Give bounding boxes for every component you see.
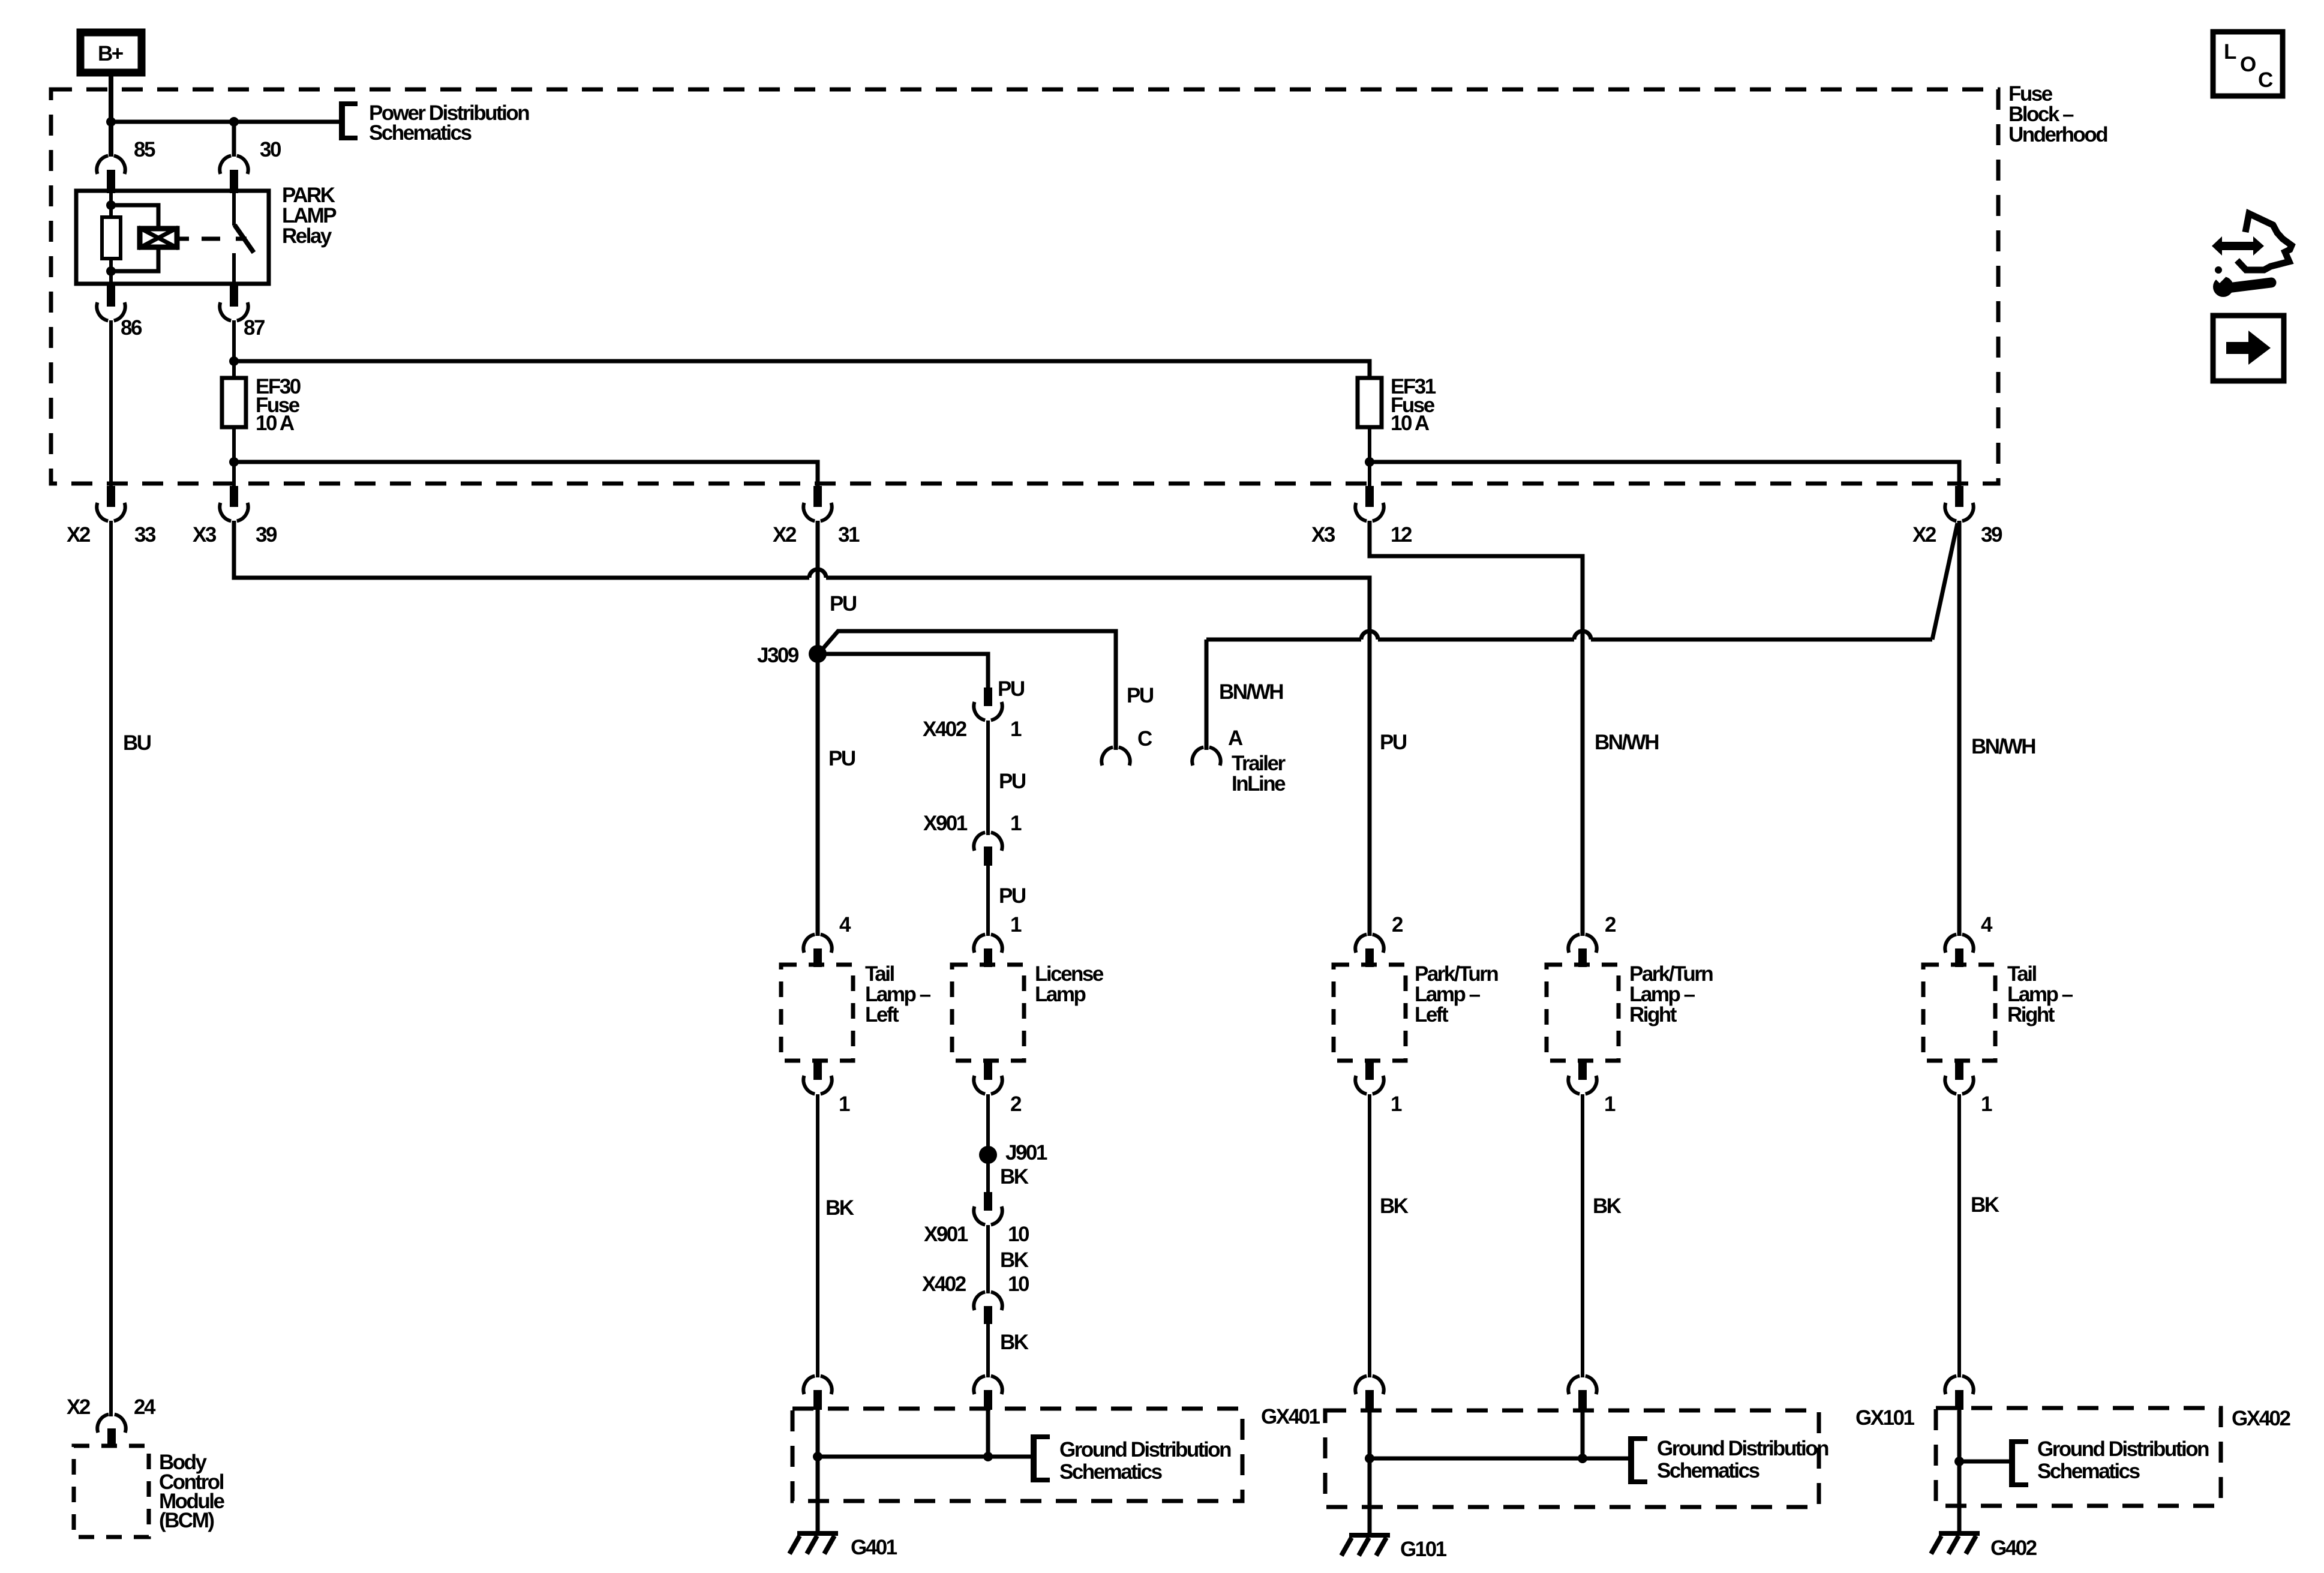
label body control module (159, 1451, 225, 1532)
connector license lamp pin 2 bottom (974, 1059, 1022, 1116)
connector into GX401 left (803, 1376, 831, 1410)
svg-text:1: 1 (1010, 812, 1022, 835)
svg-text:L: L (2224, 40, 2236, 64)
label park/turn lamp right (1629, 962, 1713, 1026)
svg-text:BK: BK (1380, 1194, 1409, 1218)
node relay coil bottom junction (106, 266, 116, 276)
wire GX101 right branch (1581, 1410, 1585, 1458)
wire B+ drop to relay pin 85 (109, 73, 113, 157)
wire GX401 to ground G401 (816, 1457, 820, 1533)
svg-text:39: 39 (256, 523, 277, 547)
node relay coil top junction (106, 200, 116, 210)
svg-text:BK: BK (1593, 1194, 1622, 1218)
wire EF31 bottom to X3-12 (1368, 427, 1371, 487)
body control module dashed box (74, 1446, 149, 1537)
label tail lamp left (865, 962, 931, 1026)
connector X402 pin 1 inline (923, 688, 1022, 741)
svg-text:PU: PU (830, 592, 857, 616)
svg-text:Schematics: Schematics (2037, 1460, 2140, 1483)
svg-text:2: 2 (1392, 913, 1403, 936)
connector park/turn right pin 2 (1568, 913, 1616, 967)
connector license lamp pin 1 (974, 913, 1022, 967)
svg-text:Left: Left (865, 1003, 899, 1026)
fuse block underhood dashed box (51, 89, 1998, 484)
wire tail lamp left pin 1 to GX401 (816, 1094, 819, 1377)
connector X402 pin 10 inline (922, 1272, 1029, 1324)
svg-text:Schematics: Schematics (1657, 1459, 1760, 1482)
connector tail lamp left pin 4 (803, 913, 851, 967)
svg-text:2: 2 (1605, 913, 1616, 936)
wire bus drop to relay pin 30 (232, 122, 236, 157)
connector relay pin 86 (97, 282, 142, 340)
wire EF31 output to X2-39 (1370, 462, 1959, 487)
node J309 splice (809, 645, 827, 663)
connector park/turn left pin 2 (1355, 913, 1403, 967)
wire GX101 internal bus to bracket (1370, 1410, 1629, 1458)
connector into GX401 right (974, 1376, 1002, 1410)
connector X2 pin 24 into BCM (67, 1395, 156, 1448)
svg-text:X2: X2 (67, 523, 91, 547)
svg-text:BK: BK (1000, 1331, 1029, 1354)
relay coil element (139, 227, 189, 248)
svg-text:86: 86 (121, 316, 142, 340)
wire hop over X2-31 column (809, 569, 826, 578)
ground connection GX401 dashed box (792, 1409, 1242, 1501)
svg-text:C: C (1137, 727, 1152, 751)
connector into GX101 left (1355, 1376, 1383, 1410)
svg-text:GX402: GX402 (2232, 1407, 2290, 1430)
label license lamp (1035, 962, 1104, 1006)
wire EF30 bottom to X3-39 (232, 427, 236, 487)
wire GX401 license branch (986, 1410, 990, 1457)
svg-text:31: 31 (838, 523, 860, 547)
connector park/turn left pin 1 bottom (1355, 1059, 1402, 1116)
node bus junction at pin 30 column (229, 117, 239, 127)
connector into GX101 right (1568, 1376, 1596, 1410)
svg-text:G402: G402 (1990, 1536, 2037, 1560)
wire X901-1 to license lamp pin 1 (986, 865, 990, 936)
relay coil branch wiring (111, 191, 158, 284)
svg-text:PU: PU (999, 770, 1026, 793)
wire X3-12 jog to park/turn lamp right feed (1370, 521, 1583, 936)
label fuse block underhood (2008, 82, 2107, 146)
connector X3 pin 12 (1311, 486, 1412, 547)
svg-text:GX401: GX401 (1261, 1405, 1320, 1428)
wire X402-10 to GX401 (986, 1323, 990, 1377)
ground connection GX101 dashed box (1325, 1410, 1819, 1507)
svg-text:1: 1 (1391, 1092, 1402, 1116)
wire diagonal from X2-39 to trailer feed (1932, 523, 1957, 640)
ground distribution schematics bracket GX402 (2011, 1437, 2209, 1487)
svg-text:C: C (2258, 68, 2273, 92)
svg-text:Schematics: Schematics (369, 121, 472, 145)
svg-text:BK: BK (825, 1196, 854, 1220)
node junction below pin 87 (229, 356, 239, 366)
svg-text:X2: X2 (67, 1395, 91, 1419)
wire relay pin 87 down to EF30 fuse (232, 320, 236, 378)
node GX101 junction right (1578, 1454, 1587, 1463)
tail lamp right dashed box (1923, 965, 1995, 1061)
svg-text:X402: X402 (923, 718, 967, 741)
svg-text:Ground Distribution: Ground Distribution (2037, 1437, 2209, 1461)
wire X2-24 drop into BCM (109, 1416, 113, 1416)
svg-text:BK: BK (1000, 1248, 1029, 1272)
svg-text:X2: X2 (773, 523, 797, 547)
node GX401 junction left (813, 1452, 822, 1461)
wire X402-1 to X901-1 (986, 721, 990, 835)
battery feed B+ symbol (80, 32, 142, 73)
wire X901-10 to X402-10 (986, 1225, 990, 1293)
svg-text:10: 10 (1008, 1223, 1029, 1246)
connector relay pin 85 (97, 138, 155, 193)
connector X3 pin 39 (193, 486, 277, 547)
svg-text:O: O (2240, 53, 2256, 76)
svg-text:A: A (1228, 727, 1243, 750)
svg-text:X402: X402 (922, 1272, 966, 1296)
svg-text:Left: Left (1415, 1003, 1449, 1026)
svg-text:Relay: Relay (282, 224, 332, 248)
label tail lamp right (2007, 962, 2073, 1026)
wire GX101 to ground G101 (1368, 1458, 1372, 1535)
wire trailer inline A feed across with hops (1206, 638, 1932, 642)
connector X2 pin 31 (773, 486, 860, 547)
park/turn lamp left dashed box (1334, 965, 1406, 1061)
node GX401 junction right (983, 1452, 993, 1461)
wire EF30 output to X2-31 (234, 462, 818, 487)
svg-text:1: 1 (1010, 913, 1022, 936)
connector A trailer inline (1192, 680, 1286, 795)
LOC reference box icon (2213, 32, 2283, 96)
svg-text:1: 1 (839, 1092, 850, 1116)
node junction below EF30 (229, 457, 239, 467)
node junction below EF31 (1365, 457, 1374, 467)
node bus junction at pin 85 column (106, 117, 116, 127)
svg-text:24: 24 (134, 1395, 156, 1419)
svg-text:Right: Right (1629, 1003, 1677, 1026)
svg-text:B+: B+ (98, 42, 124, 65)
svg-text:Lamp: Lamp (1035, 983, 1085, 1006)
ground connection GX402 dashed box (1936, 1408, 2221, 1506)
svg-text:X2: X2 (1912, 523, 1936, 547)
wire hop over park/turn left column (1361, 631, 1378, 640)
connector tail lamp left pin 1 bottom (803, 1059, 850, 1116)
svg-text:G401: G401 (851, 1536, 897, 1559)
park/turn lamp right dashed box (1547, 965, 1619, 1061)
wire GX402 internal bus to bracket (1959, 1410, 2010, 1461)
svg-text:4: 4 (1981, 913, 1993, 936)
svg-text:X901: X901 (923, 812, 968, 835)
svg-text:PU: PU (828, 747, 855, 770)
svg-text:1: 1 (1981, 1092, 1992, 1116)
wire X2-39 down to tail lamp right pin 4 (1957, 521, 1962, 936)
ground G401 (789, 1533, 897, 1559)
svg-text:X3: X3 (1311, 523, 1335, 547)
ground distribution schematics bracket GX101 (1630, 1436, 1828, 1484)
wire tail lamp right pin 1 to GX402 (1957, 1094, 1961, 1377)
svg-text:4: 4 (839, 913, 851, 936)
svg-text:Schematics: Schematics (1059, 1460, 1163, 1484)
connector X901 pin 10 inline (924, 1192, 1029, 1246)
park lamp relay (76, 184, 337, 284)
fuse EF31 10A (1358, 375, 1436, 435)
connector into GX402 (1945, 1376, 1973, 1410)
wire park/turn right pin 1 to GX101 (1581, 1094, 1584, 1377)
wire X3-39 output down and across to park/turn lamp left feed (234, 521, 1370, 936)
svg-text:30: 30 (260, 138, 281, 161)
svg-text:39: 39 (1981, 523, 2002, 547)
svg-text:Right: Right (2007, 1003, 2055, 1026)
ground G101 (1341, 1535, 1447, 1561)
svg-text:1: 1 (1604, 1092, 1616, 1116)
svg-text:12: 12 (1391, 523, 1412, 547)
wire J309 splice down to tail lamp left pin 4 (816, 654, 820, 936)
connector relay pin 87 (220, 282, 265, 340)
wire X2-33 down long BU run to X2-24 (109, 521, 113, 1416)
label park/turn lamp left (1415, 962, 1498, 1026)
fuse EF30 10A (222, 375, 301, 435)
svg-text:1: 1 (1010, 718, 1022, 741)
wire license lamp pin 2 to X901-10 through J901 (986, 1094, 990, 1194)
wire J309 branch to connector C (822, 631, 1116, 750)
svg-text:10 A: 10 A (256, 412, 295, 435)
connector X2 pin 33 (67, 486, 156, 547)
ground G402 (1931, 1533, 2037, 1560)
svg-text:PU: PU (1127, 684, 1154, 707)
connector X901 pin 1 inline (923, 812, 1022, 866)
connector tail lamp right pin 1 bottom (1945, 1059, 1992, 1116)
svg-text:(BCM): (BCM) (159, 1509, 214, 1532)
svg-text:Ground Distribution: Ground Distribution (1657, 1437, 1828, 1460)
svg-text:J901: J901 (1005, 1141, 1047, 1164)
svg-text:Ground Distribution: Ground Distribution (1059, 1438, 1231, 1461)
svg-text:J309: J309 (757, 644, 799, 667)
ground distribution schematics bracket GX401 (1032, 1434, 1231, 1484)
svg-text:87: 87 (244, 316, 265, 340)
svg-text:PU: PU (998, 677, 1025, 701)
wire park/turn left pin 1 to GX101 (1368, 1094, 1371, 1377)
svg-text:33: 33 (134, 523, 156, 547)
connector C dead end (1101, 684, 1154, 766)
connector X2 pin 39 (1912, 486, 2002, 547)
license lamp dashed box (952, 965, 1024, 1061)
svg-text:X901: X901 (924, 1223, 968, 1246)
wire X2-31 down to J309 splice (816, 521, 820, 647)
svg-text:GX101: GX101 (1855, 1406, 1914, 1430)
svg-text:10 A: 10 A (1391, 412, 1430, 435)
node GX402 junction (1954, 1457, 1964, 1466)
svg-text:BU: BU (123, 731, 151, 755)
wire relay pin 86 down to X2-33 (109, 320, 113, 487)
node J901 splice (979, 1146, 997, 1164)
resistor inside relay (102, 217, 121, 259)
connector park/turn right pin 1 bottom (1568, 1059, 1616, 1116)
wire J309 branch to X402 pin 1 (818, 654, 988, 690)
wire GX402 to ground G402 (1957, 1461, 1962, 1533)
svg-text:InLine: InLine (1232, 772, 1286, 795)
svg-text:X3: X3 (193, 523, 217, 547)
svg-text:10: 10 (1008, 1272, 1029, 1296)
wire GX401 internal bus to bracket (818, 1410, 1031, 1457)
connector tail lamp right pin 4 (1945, 913, 1993, 967)
wire trailer inline A drop (1205, 640, 1209, 750)
node GX101 junction left (1365, 1454, 1374, 1463)
svg-text:BN/WH: BN/WH (1219, 680, 1283, 704)
svg-text:BK: BK (1971, 1193, 1999, 1217)
power distribution schematics bracket (341, 101, 529, 145)
svg-text:BN/WH: BN/WH (1971, 735, 2035, 758)
connector relay pin 30 (220, 138, 281, 193)
wire battery bus to power distribution bracket (111, 120, 340, 124)
svg-text:PU: PU (1380, 731, 1407, 754)
tail lamp left dashed box (781, 965, 853, 1061)
relay actuation dashed link (202, 237, 247, 241)
vehicle navigation icon with double arrow and wrench (2210, 214, 2292, 297)
svg-text:BK: BK (1000, 1165, 1029, 1188)
svg-text:G101: G101 (1400, 1538, 1447, 1561)
wire hop over park/turn right column (1574, 631, 1591, 640)
wire EF30 to EF31 link (234, 361, 1370, 378)
forward arrow box icon (2213, 316, 2284, 381)
relay switch (234, 191, 254, 284)
svg-text:85: 85 (134, 138, 155, 161)
svg-text:2: 2 (1010, 1092, 1022, 1116)
svg-text:Underhood: Underhood (2008, 123, 2107, 146)
svg-text:BN/WH: BN/WH (1595, 731, 1658, 754)
svg-text:PU: PU (999, 884, 1026, 908)
